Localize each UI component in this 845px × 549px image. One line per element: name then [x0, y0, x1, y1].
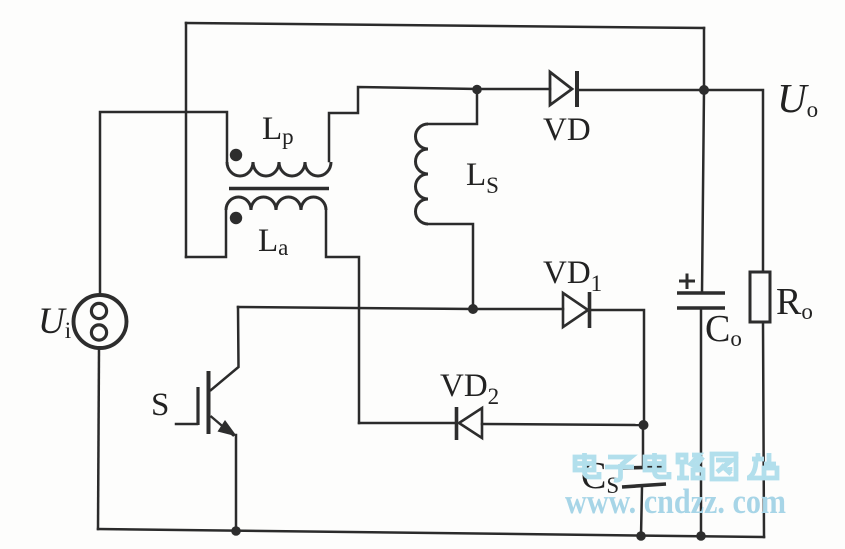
transformer core	[229, 187, 329, 191]
char 站	[747, 453, 777, 478]
node junction Ls-S-VD1	[468, 304, 478, 314]
transformer phase dot La	[230, 212, 242, 224]
node junction VD1-VD2-Cs	[639, 420, 649, 430]
svg-text:Ro: Ro	[776, 281, 813, 324]
svg-text:S: S	[151, 387, 169, 423]
node junction Cs bottom	[636, 531, 646, 541]
wire Lp right terminal step	[329, 87, 477, 161]
svg-text:VD: VD	[543, 112, 591, 148]
svg-text:www. cndzz. com: www. cndzz. com	[565, 482, 786, 521]
svg-text:Lp: Lp	[262, 111, 294, 149]
wire VD2 cathode line	[359, 422, 455, 425]
wire Ui bottom lead	[98, 348, 99, 529]
inductor La auxiliary winding	[226, 197, 326, 210]
wire left vertical from top	[185, 23, 188, 257]
wire bottom	[98, 529, 764, 537]
wire S emitter lead down	[235, 435, 238, 531]
wire S gate lead	[176, 423, 197, 426]
svg-text:LS: LS	[466, 157, 499, 198]
transistor Q switch S (IGBT)	[198, 371, 234, 436]
capacitor Co	[677, 274, 725, 309]
transformer phase dot Lp	[230, 149, 242, 161]
wire VD2 anode to node	[482, 424, 643, 425]
char 图	[712, 454, 736, 479]
wire node to Ro top	[704, 90, 763, 272]
diode VD	[550, 71, 577, 107]
wire S collector lead	[211, 307, 239, 390]
node junction top-VD-Co	[699, 85, 709, 95]
wire VD cathode to node	[579, 89, 704, 92]
inductor Ls	[415, 124, 428, 224]
char 电	[575, 453, 599, 477]
svg-text:La: La	[258, 223, 288, 260]
wire Ls bottom lead	[428, 224, 473, 309]
wire left bottom to La left terminal	[186, 210, 226, 257]
transistor S emitter arrow	[218, 420, 238, 437]
wire top loop	[186, 23, 704, 28]
node junction Lp-VD-Ls	[472, 85, 482, 95]
svg-text:Co: Co	[705, 308, 742, 351]
inductor Lp primary winding	[227, 162, 331, 176]
node junction S emitter bottom	[231, 526, 241, 536]
char 电	[645, 453, 669, 477]
svg-text:VD2: VD2	[440, 368, 499, 409]
wire Ls top lead	[428, 90, 477, 124]
wire Co top lead	[702, 90, 704, 293]
wire S collector horizontal	[238, 307, 473, 309]
wire VD anode line	[477, 88, 550, 91]
diode VD2	[457, 407, 483, 440]
wire Ui top branch	[100, 112, 227, 295]
wire VD1 anode line	[473, 308, 563, 311]
capacitor Cs	[621, 467, 666, 487]
watermark line 1: 电子电路图站 (drawn strokes)	[575, 453, 777, 480]
wire Cs bottom lead	[641, 487, 642, 536]
svg-text:VD1: VD1	[543, 255, 602, 296]
wire Co bottom lead	[700, 308, 703, 536]
svg-text:Uo: Uo	[777, 75, 818, 122]
wire Cs top lead	[642, 425, 645, 466]
char 路	[677, 455, 703, 478]
char 子	[605, 457, 634, 480]
wire top-right vertical to node	[703, 28, 706, 90]
resistor Ro	[750, 272, 770, 322]
voltage source Ui	[74, 295, 127, 348]
wire Ro bottom lead	[763, 322, 764, 537]
svg-text:Ui: Ui	[38, 301, 71, 343]
wire VD1 cathode to corner and down	[591, 310, 644, 425]
node junction Co bottom	[696, 531, 706, 541]
diode VD1	[563, 292, 590, 328]
wire La right branch down	[326, 210, 359, 423]
